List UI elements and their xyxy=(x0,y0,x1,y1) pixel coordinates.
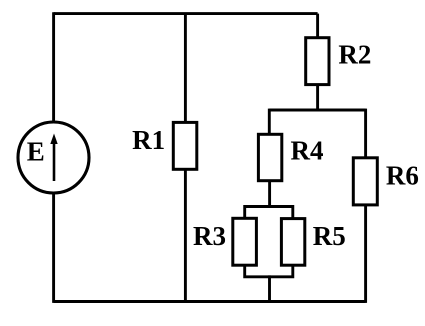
wire R4 to parallel group xyxy=(268,179,271,208)
resistor R5 body xyxy=(281,219,304,266)
svg-text:E: E xyxy=(27,136,45,166)
wire parallel group top bar xyxy=(245,207,293,220)
wire R1 branch upper xyxy=(184,14,187,124)
svg-text:R3: R3 xyxy=(193,221,226,251)
wire R6 upper stub xyxy=(364,109,367,160)
svg-text:R4: R4 xyxy=(291,136,324,166)
resistor R3 body xyxy=(233,218,257,265)
wire R1 branch lower xyxy=(184,168,187,302)
svg-text:R6: R6 xyxy=(386,160,419,190)
voltage source E circle xyxy=(18,122,89,193)
svg-text:R1: R1 xyxy=(132,125,165,155)
resistor R1 body xyxy=(173,122,197,169)
wire left branch lower xyxy=(52,192,55,303)
wire split bus xyxy=(269,109,365,112)
resistor R4 body xyxy=(258,134,281,180)
wire parallel group to bottom bus xyxy=(268,275,271,301)
voltage source arrow xyxy=(50,134,57,182)
wire R2 branch upper stub xyxy=(316,14,319,40)
wire top bus xyxy=(54,12,318,15)
resistor R6 body xyxy=(353,158,377,205)
wire R4 upper stub xyxy=(268,109,271,136)
svg-text:R2: R2 xyxy=(338,39,371,69)
wire left branch upper xyxy=(52,12,55,123)
wire R2 branch lower stub xyxy=(316,83,319,110)
wire R6 branch lower xyxy=(364,203,367,303)
svg-text:R5: R5 xyxy=(313,221,346,251)
wire parallel group bottom bar xyxy=(245,264,293,277)
resistor R2 body xyxy=(306,38,329,85)
wire bottom bus xyxy=(54,300,366,303)
